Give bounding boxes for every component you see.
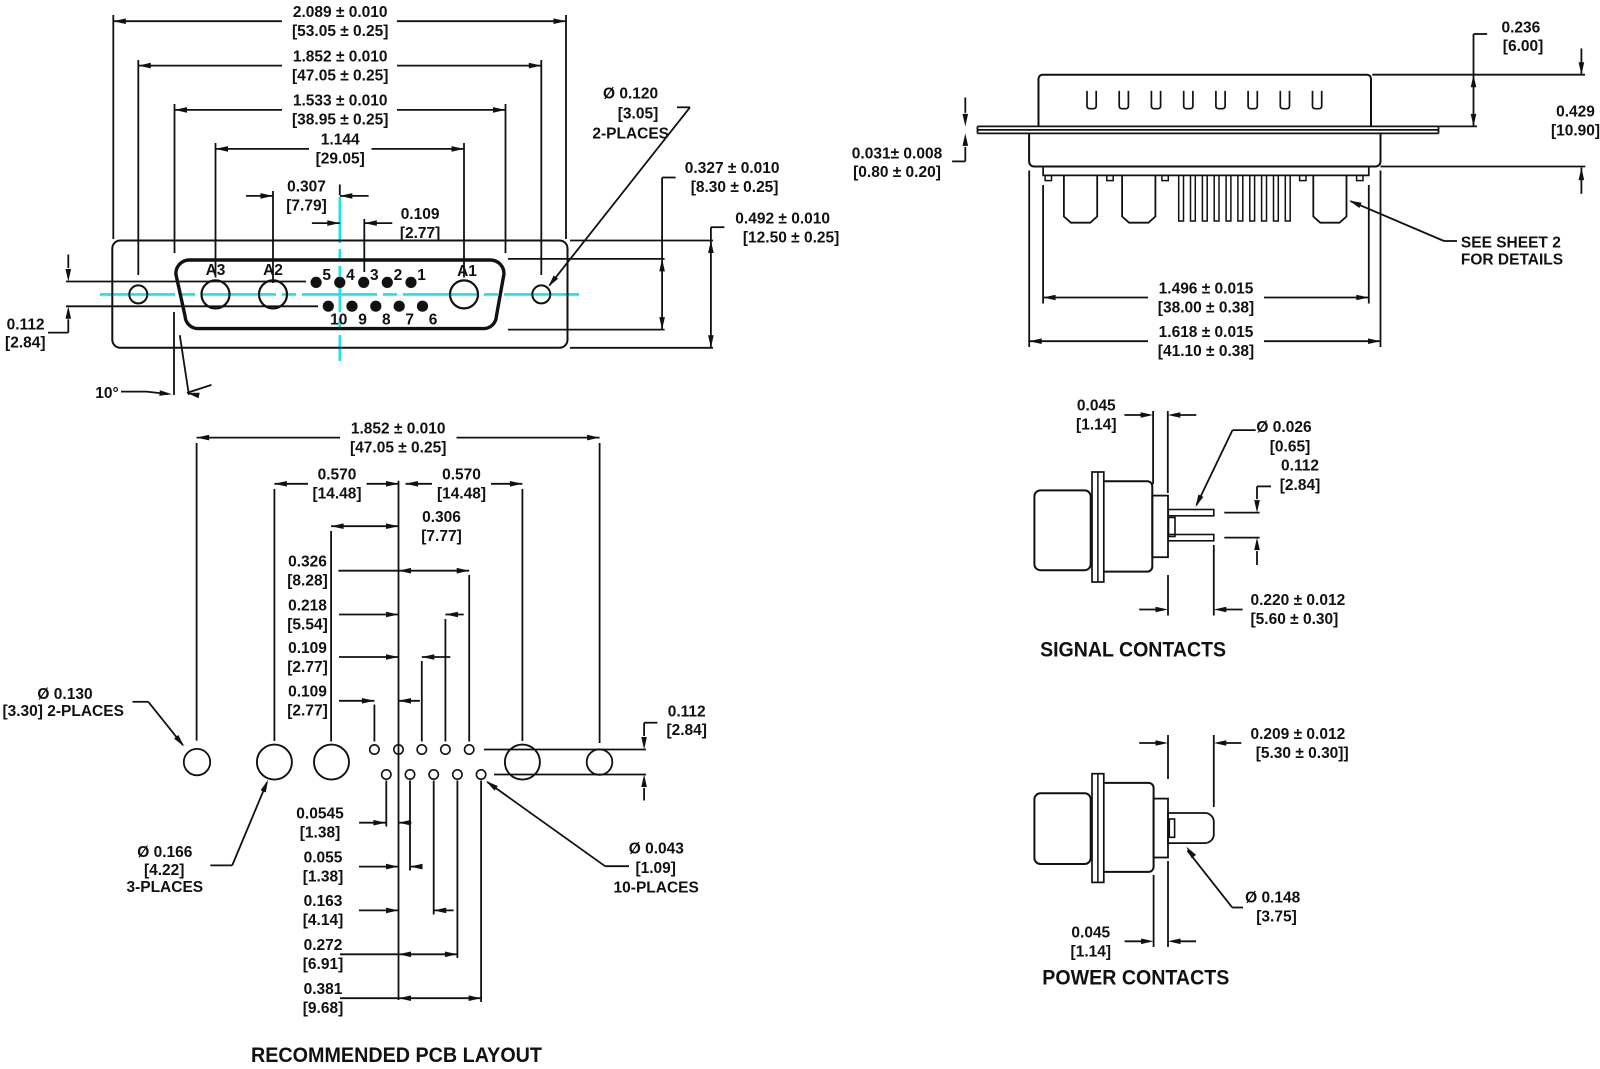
- svg-text:[2.77]: [2.77]: [400, 225, 441, 242]
- svg-text:0.112: 0.112: [668, 704, 706, 721]
- svg-text:[1.38]: [1.38]: [300, 825, 341, 842]
- svg-text:[1.14]: [1.14]: [1071, 944, 1112, 961]
- svg-text:10: 10: [330, 312, 347, 329]
- svg-text:[3.05]: [3.05]: [618, 106, 659, 123]
- svg-text:[0.65]: [0.65]: [1270, 439, 1311, 456]
- svg-text:[2.77]: [2.77]: [287, 659, 328, 676]
- svg-text:[6.00]: [6.00]: [1503, 38, 1544, 55]
- svg-text:Ø 0.166: Ø 0.166: [137, 844, 193, 861]
- svg-text:2: 2: [394, 267, 403, 284]
- svg-text:0.045: 0.045: [1071, 925, 1110, 942]
- svg-text:3-PLACES: 3-PLACES: [126, 879, 203, 896]
- svg-text:[5.30 ± 0.30]]: [5.30 ± 0.30]]: [1256, 745, 1349, 762]
- svg-text:0.492 ± 0.010: 0.492 ± 0.010: [735, 210, 830, 227]
- svg-text:8: 8: [382, 312, 391, 329]
- svg-text:0.381: 0.381: [304, 981, 343, 998]
- svg-text:0.429: 0.429: [1556, 104, 1595, 121]
- svg-text:[12.50 ± 0.25]: [12.50 ± 0.25]: [743, 230, 839, 247]
- svg-text:[2.84]: [2.84]: [1280, 477, 1321, 494]
- svg-text:0.209 ± 0.012: 0.209 ± 0.012: [1251, 726, 1346, 743]
- svg-text:0.306: 0.306: [422, 509, 461, 526]
- svg-text:[1.09]: [1.09]: [635, 860, 676, 877]
- svg-text:6: 6: [429, 312, 438, 329]
- svg-text:Ø 0.120: Ø 0.120: [603, 86, 658, 103]
- svg-text:0.163: 0.163: [304, 893, 343, 910]
- svg-text:[47.05 ± 0.25]: [47.05 ± 0.25]: [292, 67, 388, 84]
- svg-text:4: 4: [346, 267, 355, 284]
- svg-text:1.496 ± 0.015: 1.496 ± 0.015: [1159, 280, 1254, 297]
- svg-text:0.109: 0.109: [288, 684, 327, 701]
- svg-text:0.112: 0.112: [7, 317, 45, 334]
- svg-text:0.218: 0.218: [288, 597, 327, 614]
- svg-text:1: 1: [417, 267, 426, 284]
- svg-text:1.533 ± 0.010: 1.533 ± 0.010: [293, 93, 388, 110]
- svg-text:0.045: 0.045: [1077, 398, 1116, 415]
- svg-text:[10.90]: [10.90]: [1551, 123, 1600, 140]
- svg-text:10-PLACES: 10-PLACES: [614, 880, 699, 897]
- svg-text:[7.79]: [7.79]: [286, 198, 327, 215]
- svg-text:0.570: 0.570: [318, 467, 357, 484]
- svg-text:0.220 ± 0.012: 0.220 ± 0.012: [1251, 592, 1346, 609]
- svg-text:[2.84]: [2.84]: [666, 722, 707, 739]
- svg-text:[6.91]: [6.91]: [303, 956, 344, 973]
- svg-text:[47.05 ± 0.25]: [47.05 ± 0.25]: [350, 439, 446, 456]
- svg-text:Ø 0.148: Ø 0.148: [1245, 889, 1301, 906]
- svg-text:[5.60 ± 0.30]: [5.60 ± 0.30]: [1251, 611, 1339, 628]
- svg-text:[4.22]: [4.22]: [144, 862, 185, 879]
- svg-text:0.327 ± 0.010: 0.327 ± 0.010: [685, 160, 780, 177]
- svg-text:[8.28]: [8.28]: [287, 573, 328, 590]
- svg-text:[2.84]: [2.84]: [5, 334, 46, 351]
- svg-text:[53.05 ± 0.25]: [53.05 ± 0.25]: [292, 23, 388, 40]
- svg-text:[29.05]: [29.05]: [316, 151, 365, 168]
- svg-text:RECOMMENDED PCB LAYOUT: RECOMMENDED PCB LAYOUT: [251, 1043, 542, 1067]
- svg-text:2.089 ± 0.010: 2.089 ± 0.010: [293, 4, 388, 21]
- svg-text:0.236: 0.236: [1502, 20, 1541, 37]
- svg-text:5: 5: [322, 267, 331, 284]
- svg-text:POWER CONTACTS: POWER CONTACTS: [1042, 966, 1229, 990]
- svg-text:Ø 0.130: Ø 0.130: [37, 686, 92, 703]
- svg-text:A1: A1: [457, 263, 477, 280]
- svg-text:[7.77]: [7.77]: [421, 528, 462, 545]
- svg-text:0.570: 0.570: [442, 467, 481, 484]
- svg-text:1.852 ± 0.010: 1.852 ± 0.010: [293, 48, 388, 65]
- svg-text:[3.75]: [3.75]: [1256, 908, 1297, 925]
- svg-text:3: 3: [370, 267, 379, 284]
- svg-text:1.852 ± 0.010: 1.852 ± 0.010: [351, 420, 446, 437]
- svg-text:0.031± 0.008: 0.031± 0.008: [852, 146, 943, 163]
- svg-text:10°: 10°: [95, 385, 118, 402]
- svg-text:[38.95 ± 0.25]: [38.95 ± 0.25]: [292, 112, 388, 129]
- svg-text:[8.30 ± 0.25]: [8.30 ± 0.25]: [691, 179, 779, 196]
- svg-text:SEE SHEET 2: SEE SHEET 2: [1461, 235, 1561, 252]
- svg-text:[14.48]: [14.48]: [437, 486, 486, 503]
- svg-text:0.109: 0.109: [401, 206, 440, 223]
- svg-text:[3.30] 2-PLACES: [3.30] 2-PLACES: [2, 703, 123, 720]
- svg-text:[1.38]: [1.38]: [303, 868, 344, 885]
- svg-text:[1.14]: [1.14]: [1076, 417, 1117, 434]
- svg-text:Ø 0.026: Ø 0.026: [1256, 419, 1312, 436]
- svg-text:Ø 0.043: Ø 0.043: [629, 841, 685, 858]
- svg-text:0.112: 0.112: [1281, 458, 1319, 475]
- svg-text:[9.68]: [9.68]: [303, 1000, 344, 1017]
- svg-text:FOR DETAILS: FOR DETAILS: [1461, 252, 1563, 269]
- svg-text:[41.10 ± 0.38]: [41.10 ± 0.38]: [1158, 343, 1254, 360]
- svg-text:[5.54]: [5.54]: [287, 616, 328, 633]
- svg-text:0.307: 0.307: [287, 179, 326, 196]
- svg-text:9: 9: [358, 312, 367, 329]
- svg-text:[38.00 ± 0.38]: [38.00 ± 0.38]: [1158, 299, 1254, 316]
- svg-text:[4.14]: [4.14]: [303, 912, 344, 929]
- svg-text:1.144: 1.144: [321, 132, 360, 149]
- svg-text:[14.48]: [14.48]: [312, 486, 361, 503]
- svg-text:0.272: 0.272: [304, 937, 343, 954]
- svg-text:1.618 ± 0.015: 1.618 ± 0.015: [1159, 324, 1254, 341]
- svg-text:[2.77]: [2.77]: [287, 703, 328, 720]
- svg-text:0.055: 0.055: [304, 849, 343, 866]
- svg-text:7: 7: [405, 312, 414, 329]
- svg-text:0.109: 0.109: [288, 640, 327, 657]
- svg-text:0.326: 0.326: [288, 554, 327, 571]
- svg-text:SIGNAL CONTACTS: SIGNAL CONTACTS: [1040, 638, 1226, 662]
- svg-text:[0.80 ± 0.20]: [0.80 ± 0.20]: [853, 164, 941, 181]
- svg-text:0.0545: 0.0545: [296, 806, 344, 823]
- svg-text:2-PLACES: 2-PLACES: [592, 126, 669, 143]
